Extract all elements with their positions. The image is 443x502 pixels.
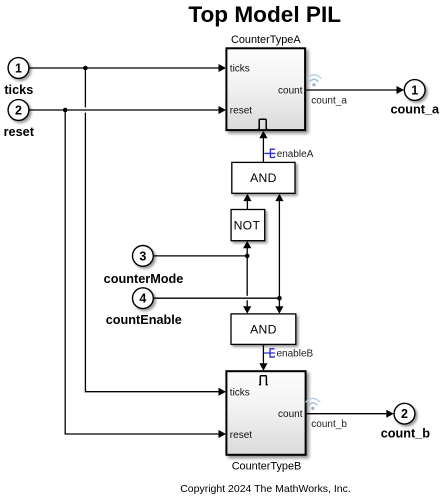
wire reset branch down to U2 [65, 110, 219, 434]
arrowhead into U5 right input [275, 306, 283, 313]
wire countEnable down to AND lower [278, 298, 280, 308]
svg-text:Top Model PIL: Top Model PIL [188, 2, 341, 27]
logic gate U5 AND (lower) [231, 314, 296, 345]
svg-text:3: 3 [139, 249, 146, 263]
svg-text:count_a: count_a [311, 95, 347, 106]
logic gate U4 NOT [231, 210, 265, 241]
svg-text:count: count [278, 85, 303, 96]
svg-text:2: 2 [401, 407, 408, 421]
svg-text:enableB: enableB [277, 349, 314, 360]
arrowhead into outport 1 [397, 86, 405, 94]
wire count_b output [306, 413, 388, 415]
svg-text:countEnable: countEnable [106, 313, 182, 327]
arrowhead into U2 trigger [259, 363, 267, 370]
svg-text:count: count [278, 409, 303, 420]
wire ticks branch down to U2 [85, 68, 219, 392]
node junction countEnable [277, 296, 282, 301]
svg-text:counterMode: counterMode [104, 272, 184, 286]
svg-text:CounterTypeB: CounterTypeB [232, 460, 302, 472]
arrowhead into U5 left input [243, 306, 251, 313]
node junction ticks [83, 66, 88, 71]
inport 2 [8, 100, 29, 121]
wire counterMode down to AND lower [246, 256, 248, 308]
node junction counterMode [245, 254, 250, 259]
signal tag icon enableA [265, 149, 275, 157]
svg-text:1: 1 [15, 62, 22, 76]
arrowhead into outport 2 [386, 410, 394, 418]
svg-text:AND: AND [250, 171, 277, 185]
arrowhead into U1 reset [219, 106, 227, 114]
svg-text:count_a: count_a [390, 103, 440, 117]
outport 2 [394, 403, 415, 424]
arrowhead into U1 trigger [259, 131, 267, 138]
svg-text:reset: reset [230, 430, 252, 441]
logging badge count_b [306, 398, 320, 410]
arrowhead into U1 ticks [219, 64, 227, 72]
svg-text:count_b: count_b [311, 419, 347, 430]
svg-text:2: 2 [15, 104, 22, 118]
svg-text:AND: AND [250, 323, 277, 337]
svg-text:reset: reset [4, 125, 35, 139]
inport 3 [133, 246, 154, 267]
svg-text:CounterTypeA: CounterTypeA [231, 34, 301, 46]
wire reset horizontal [29, 109, 219, 111]
inport 4 [133, 288, 154, 309]
arrowhead into U2 ticks [219, 388, 227, 396]
wire counterMode horizontal [153, 255, 247, 257]
svg-text:NOT: NOT [234, 218, 261, 232]
node junction reset [63, 108, 68, 113]
signal tag icon enableB [265, 349, 275, 357]
outport 1 [404, 80, 425, 101]
svg-text:ticks: ticks [230, 388, 250, 399]
arrowhead into U3 right input [275, 194, 283, 201]
svg-text:count_b: count_b [381, 427, 431, 441]
svg-text:enableA: enableA [277, 149, 314, 160]
trigger port symbol of U2 [260, 376, 266, 385]
svg-text:reset: reset [230, 106, 252, 117]
trigger port symbol of U1 [259, 119, 266, 129]
wire ticks horizontal [29, 67, 219, 69]
wire count_a output [306, 89, 398, 91]
wire countEnable up to AND upper [278, 199, 280, 298]
logging badge count_a [307, 75, 321, 87]
arrowhead into U3 left input [243, 194, 251, 201]
svg-text:1: 1 [411, 84, 418, 98]
svg-text:Copyright 2024 The MathWorks,: Copyright 2024 The MathWorks, Inc. [180, 483, 351, 495]
wire NOT output up to AND upper [246, 199, 248, 209]
arrowhead into U2 reset [219, 430, 227, 438]
arrowhead into U4 NOT [243, 241, 251, 248]
inport 1 [8, 58, 29, 79]
logic gate U3 AND (upper) [232, 162, 295, 193]
subsystem U2 CounterTypeB [226, 371, 305, 455]
svg-text:ticks: ticks [4, 83, 33, 97]
wire enableB from AND lower to U2 trigger [262, 344, 264, 365]
svg-text:ticks: ticks [230, 64, 250, 75]
wire countEnable horizontal [153, 297, 279, 299]
subsystem U1 CounterTypeA [226, 48, 305, 130]
wire enableA from AND upper to U1 trigger [262, 137, 264, 163]
svg-text:4: 4 [139, 292, 146, 306]
wire counterMode up to NOT [246, 247, 248, 256]
